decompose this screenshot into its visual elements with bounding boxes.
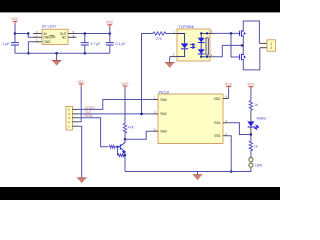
wire pad to ground rail [125, 167, 251, 171]
svg-text:NC: NC [62, 36, 67, 40]
letterbox bottom bar [0, 187, 280, 200]
capacitor C3 0.1 uF [106, 34, 126, 54]
wire drain node to RA3 [125, 131, 153, 139]
junction drain node [124, 138, 127, 141]
pin stub J1 pin1 [72, 125, 77, 127]
transistor Q1 (upper MOSFET) [238, 30, 246, 37]
pin stub VSS (pin 2) [223, 135, 228, 137]
wire pin3 to ground [169, 57, 171, 63]
svg-text:VCC: VCC [121, 82, 129, 86]
wire VCC down to J1 pin2 [78, 87, 81, 122]
junction at C3 top / VCC [109, 32, 112, 35]
wire LED cathode to node [250, 127, 252, 135]
connector J1 (5-pin) [66, 106, 72, 130]
pin stub opto pin 6 [210, 32, 215, 34]
svg-text:1k: 1k [254, 145, 258, 149]
opto photodiode stack [198, 33, 205, 56]
svg-text:0.1 µF: 0.1 µF [116, 42, 126, 46]
svg-text:270: 270 [156, 37, 162, 41]
resistor R6 (gate pulldown) [118, 147, 126, 157]
capacitor C1 1 uF [3, 34, 20, 54]
svg-text:ON/OFF: ON/OFF [44, 36, 56, 40]
svg-text:TLP3906: TLP3906 [179, 25, 194, 29]
pin stub VDD (pin 5) [223, 98, 229, 100]
svg-text:VCC: VCC [11, 17, 19, 21]
pin stub IN (pin 3) [33, 33, 42, 35]
junction RA2/riser [140, 113, 143, 116]
junction gate branch [230, 32, 233, 35]
pad LRN upper [249, 158, 253, 162]
resistor R4 1k [249, 140, 258, 152]
wire OUT to VCC node [77, 33, 110, 35]
pin stub J1 pin5 [72, 108, 77, 110]
svg-text:RA0: RA0 [161, 98, 167, 102]
wire pin6 to gates [215, 32, 238, 34]
svg-text:47k: 47k [128, 126, 134, 130]
junction gate node [116, 146, 118, 148]
wire ON/OFF branch [28, 34, 33, 38]
svg-text:VSS: VSS [214, 134, 220, 138]
opto emission arrows [190, 44, 195, 49]
pin stub opto pin 4 [210, 56, 215, 58]
power symbol VCC (47k pullup) [121, 82, 129, 89]
LED D1 Yellow [247, 116, 266, 129]
svg-text:Yellow: Yellow [256, 116, 266, 120]
pin stub J1 pin4 [72, 113, 77, 115]
svg-text:3V LDO: 3V LDO [42, 24, 56, 29]
letterbox top bar [0, 0, 280, 12]
wire RA1 to LED node [228, 123, 251, 135]
regulator U1 3V LDO [42, 24, 69, 45]
pin stub GND (pin 2) [34, 41, 43, 43]
optocoupler U2 TLP3906 [177, 25, 210, 61]
wire net RA2/opto riser [142, 34, 152, 114]
opto output block rectangle [206, 38, 208, 55]
wire gate branch down to Q2 gate [231, 33, 238, 57]
power symbol VCC (J1 pin2) [78, 80, 86, 87]
wire Q3 source down [124, 151, 126, 171]
svg-text:PIC10: PIC10 [159, 91, 170, 95]
svg-text:VCC: VCC [225, 82, 233, 86]
pin stub RA0 (pin 1) [153, 99, 158, 101]
svg-text:GND: GND [44, 40, 52, 44]
svg-text:VCC: VCC [106, 21, 114, 25]
svg-text:LRN: LRN [255, 163, 262, 167]
opto internal bottom wire [201, 56, 210, 58]
wire source column [242, 36, 244, 55]
pin stub J1 pin3 [72, 117, 77, 119]
svg-text:VDD: VDD [214, 97, 221, 101]
wire VCC to 47k [124, 89, 126, 123]
ground symbol (bottom rail) [193, 172, 203, 180]
wire VCC to node A [14, 24, 16, 34]
junction VSS/ground rail [230, 170, 233, 173]
PIC microcontroller U3 [158, 91, 223, 144]
wire RCIN net down to gate resistor [78, 118, 109, 147]
wire VCC to R3 [250, 89, 252, 99]
svg-text:VCC: VCC [247, 83, 255, 87]
svg-text:1 µF: 1 µF [3, 42, 10, 46]
pin stub OUT (pin 5) [68, 33, 77, 35]
opto internal junctions [200, 32, 202, 34]
wire Q1 drain to top rail [243, 21, 259, 43]
wire GOOD net to RA0 [78, 100, 153, 110]
ground rail wire [15, 52, 110, 54]
resistor R2 47k [123, 123, 133, 135]
svg-text:RA2: RA2 [161, 112, 167, 116]
pin stub ON/OFF (pin 1) [33, 36, 42, 38]
wire node to R4 [250, 135, 252, 141]
junction C2 bottom [84, 52, 87, 55]
pin stub J2 pin2 [260, 47, 267, 49]
power symbol VCC (LED chain) [247, 83, 255, 90]
ground symbol (J1) [77, 178, 87, 183]
wire node A to LDO input [15, 33, 28, 35]
capacitor C2 4.7 uF [81, 34, 101, 54]
wire OUT net to RA2 [78, 113, 153, 115]
junction LED/RA1 [250, 133, 253, 136]
wire VSS down [228, 136, 231, 172]
svg-text:RA1: RA1 [214, 121, 220, 125]
opto internal LED [177, 34, 188, 57]
pad LRN lower [249, 163, 253, 167]
resistor R5 (gate series) [109, 145, 117, 148]
power symbol VCC (above C3) [106, 21, 114, 28]
junction at LDO input branch [27, 32, 30, 35]
node A junction [14, 32, 17, 35]
junction sources [241, 44, 244, 47]
wire 270 to opto [167, 33, 173, 35]
wire pin4 to sources [215, 45, 243, 56]
wire R4 to pads [250, 151, 252, 157]
wire J1 pin1 to ground [78, 126, 82, 178]
junction ground symbol [55, 52, 58, 55]
pin stub RA2 (pin 4) [153, 113, 158, 115]
wire drain node down to Q3 [124, 139, 126, 143]
wire Q2 drain to bottom rail [243, 48, 259, 70]
pin stub opto anode (pin 1) [173, 33, 177, 35]
opto internal top wire [201, 32, 210, 34]
pin stub opto cathode (pin 3) [170, 56, 177, 58]
resistor R1 270 [152, 32, 168, 41]
connector J2 [267, 40, 275, 51]
wire R3 to LED [250, 111, 252, 121]
junction at C2 top [84, 32, 87, 35]
junction GND rail [27, 52, 30, 55]
svg-text:VCC: VCC [78, 80, 86, 84]
pin stub RA3 (pin 6) [153, 130, 158, 132]
wire VDD to VCC [228, 89, 230, 98]
power symbol VCC (VDD) [225, 82, 233, 89]
transistor Q3 [118, 143, 126, 154]
ground symbol (opto) [165, 63, 175, 68]
pin stub RA1 (pin 3) [223, 122, 228, 124]
wire 47k to drain node [124, 134, 126, 139]
pin stub J1 pin2 [72, 121, 77, 123]
pin stub J2 pin1 [259, 42, 267, 44]
wire GND pin to ground rail [28, 42, 33, 54]
svg-text:1k: 1k [254, 103, 258, 107]
ground symbol (LDO) [52, 53, 62, 65]
svg-text:2: 2 [270, 46, 272, 50]
transistor Q2 (lower MOSFET) [238, 54, 246, 60]
pin stub NC (pin 4) [68, 36, 77, 38]
resistor R3 1k [249, 100, 258, 112]
junction pulldown/source [124, 154, 126, 156]
svg-text:RA3: RA3 [161, 130, 167, 134]
power symbol VCC (top-left) [11, 17, 19, 24]
wire VCC to C3 [109, 28, 111, 34]
svg-text:4.7 µF: 4.7 µF [91, 42, 101, 46]
